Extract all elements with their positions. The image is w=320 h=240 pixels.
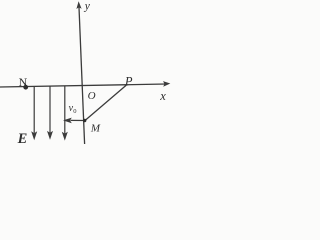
svg-text:x: x: [159, 89, 166, 103]
y-axis: [76, 1, 84, 144]
node N dot: [23, 85, 28, 90]
svg-text:P: P: [124, 74, 133, 88]
node M dot: [83, 119, 86, 122]
svg-text:y: y: [84, 0, 91, 12]
field arrow 1: [31, 86, 37, 140]
line M to P: [85, 85, 127, 121]
velocity arrow v0: [63, 118, 85, 124]
field arrow 3: [62, 86, 68, 141]
svg-text:M: M: [90, 122, 101, 134]
svg-text:O: O: [88, 90, 96, 102]
svg-text:E: E: [17, 131, 28, 147]
svg-text:0: 0: [73, 108, 76, 115]
field arrow 2: [47, 86, 53, 140]
x-axis: [0, 81, 170, 87]
